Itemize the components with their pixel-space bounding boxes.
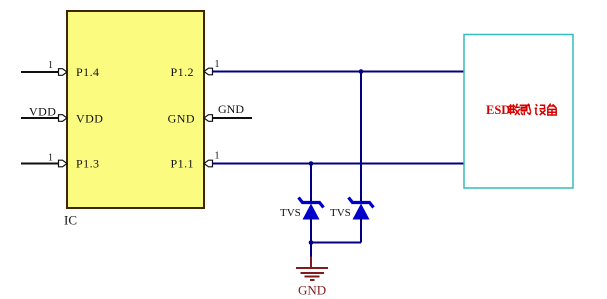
TVS diode D1 anode triangle	[303, 204, 320, 220]
ground symbol bar 1	[296, 267, 328, 269]
wire D1 anode down	[310, 218, 312, 243]
svg-text:GND: GND	[168, 112, 195, 126]
ground symbol bar 2	[301, 272, 325, 274]
glyph 备	[547, 104, 556, 115]
pin arrow P1.4	[59, 69, 68, 76]
wire junction down to TVS D1	[310, 164, 312, 202]
glyph 设	[535, 104, 546, 115]
svg-text:IC: IC	[64, 213, 77, 228]
pin arrow P1.1	[204, 160, 213, 167]
wire D2 anode down	[360, 218, 362, 243]
svg-text:ESD: ESD	[486, 103, 510, 117]
svg-text:1: 1	[215, 59, 220, 70]
junction on P1.2 wire	[359, 69, 364, 74]
svg-text:GND: GND	[218, 102, 244, 116]
pin arrow P1.2	[204, 68, 213, 75]
junction at ground node	[309, 240, 314, 245]
ground symbol bar 3	[305, 276, 320, 278]
svg-text:P1.3: P1.3	[76, 157, 99, 171]
wire to pin VDD	[21, 117, 59, 119]
wire to pin P1.4	[21, 71, 59, 73]
wire to pin P1.3	[21, 163, 59, 165]
wire junction down to TVS D2	[360, 72, 362, 202]
wire P1.1 to ESD box	[212, 163, 464, 165]
TVS diode D1 cathode bar	[299, 198, 324, 208]
svg-text:1: 1	[215, 151, 220, 162]
TVS diode D2 anode triangle	[353, 204, 370, 220]
svg-text:VDD: VDD	[29, 105, 56, 119]
wire P1.2 to ESD box	[212, 71, 464, 73]
IC U1 body	[67, 11, 204, 208]
TVS diode D2 cathode bar	[349, 198, 374, 208]
wire down to ground	[310, 243, 312, 258]
wire GND stub	[212, 117, 252, 119]
junction on P1.1 wire	[309, 161, 314, 166]
svg-text:VDD: VDD	[76, 112, 103, 126]
svg-text:TVS: TVS	[330, 207, 351, 219]
wire joining TVS anodes	[311, 242, 361, 244]
pin arrow VDD	[59, 115, 68, 122]
svg-text:TVS: TVS	[280, 207, 301, 219]
svg-text:P1.1: P1.1	[171, 157, 194, 171]
svg-text:P1.4: P1.4	[76, 65, 99, 79]
svg-text:GND: GND	[298, 283, 326, 298]
glyph 敏	[509, 104, 520, 115]
svg-text:P1.2: P1.2	[171, 65, 194, 79]
ESD sensitive device box	[464, 35, 573, 189]
svg-text:1: 1	[48, 153, 53, 164]
ground symbol lead	[310, 257, 312, 268]
ground symbol bar 4	[310, 279, 315, 281]
glyph 感	[520, 104, 531, 116]
pin arrow GND	[204, 115, 213, 122]
pin arrow P1.3	[59, 160, 68, 167]
svg-text:1: 1	[48, 60, 53, 71]
